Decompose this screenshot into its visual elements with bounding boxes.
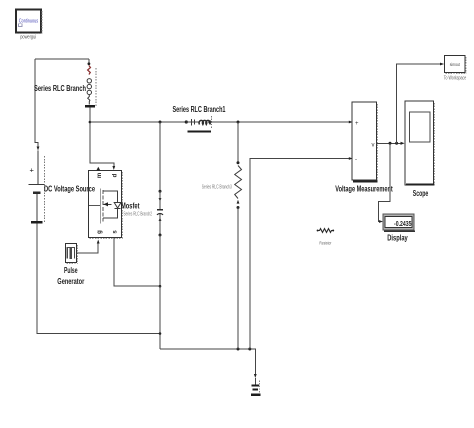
DC voltage source label [44, 184, 95, 193]
series RLC branch1 label [173, 105, 226, 114]
wire into Series RLC Branch top [88, 59, 91, 65]
powergui block [16, 10, 42, 34]
mosfet label [121, 201, 140, 210]
wire v-minus: corner to VM lower input [250, 157, 353, 349]
node resistor bottom junction [237, 348, 240, 351]
series RLC branch1 (horizontal) [185, 116, 212, 133]
wire resistor branch vertical top [237, 122, 239, 163]
DC voltage source [29, 151, 45, 224]
wire top-left horizontal [35, 58, 89, 60]
svg-text:m: m [97, 173, 103, 178]
node resistor branch tap [237, 121, 240, 124]
resistor R (series RLC branch3) [235, 161, 242, 209]
main top wire to Series RLC Branch1 [90, 121, 186, 123]
svg-text:Series RLC Branch1: Series RLC Branch1 [173, 105, 226, 114]
svg-text:Series RLC Branch3: Series RLC Branch3 [202, 184, 232, 190]
display block [383, 214, 415, 232]
node junction on main wire at left [89, 121, 92, 124]
wire VM output to scope [376, 142, 404, 145]
node s-junction [159, 285, 162, 288]
svg-text:Generator: Generator [57, 277, 84, 286]
to workspace label [444, 75, 467, 81]
svg-text:simout: simout [450, 62, 461, 67]
svg-text:powergui: powergui [20, 35, 36, 41]
scope label [413, 189, 429, 198]
svg-text:Resistor: Resistor [319, 240, 331, 245]
wire to display block [378, 143, 390, 223]
scope block [405, 101, 435, 185]
svg-text:-0.2435: -0.2435 [394, 219, 412, 228]
pulse generator [65, 244, 77, 264]
svg-text:Pulse: Pulse [64, 266, 78, 275]
wire capacitor bottom to s-node [159, 235, 161, 286]
svg-text:Voltage Measurement: Voltage Measurement [335, 185, 393, 194]
svg-text:To Workspace: To Workspace [444, 75, 467, 81]
wire mosfet source to node [114, 238, 160, 286]
wire bottom horizontal to ground corner [160, 349, 255, 374]
voltage measurement U2 block [352, 102, 377, 182]
wire main vertical down [159, 286, 161, 349]
wire from branch bottom to mosfet drain [90, 107, 115, 170]
wire to workspace block [397, 63, 445, 144]
svg-text:-: - [355, 157, 357, 163]
svg-text:+: + [30, 166, 35, 175]
svg-text:Scope: Scope [413, 189, 429, 198]
node capacitor branch tap [159, 121, 162, 124]
node vminus bottom junction [248, 348, 251, 351]
powergui label [20, 35, 36, 41]
node display tap [389, 142, 392, 145]
to workspace block (simout) [445, 55, 467, 73]
display label [387, 233, 408, 242]
svg-text:DC Voltage Source: DC Voltage Source [44, 184, 95, 193]
mosfet U1 block [88, 167, 122, 239]
wire resistor bottom vertical [237, 208, 239, 350]
main top wire to voltage measurement [210, 121, 353, 124]
node dc-junction [159, 332, 162, 335]
svg-text:v: v [372, 143, 375, 149]
resistor label [319, 240, 331, 245]
series RLC branch label [34, 84, 86, 93]
wire pulse generator to mosfet gate [77, 240, 100, 254]
wire DC source bottom to lower-left corner [37, 224, 160, 334]
svg-text:+: + [355, 121, 359, 127]
resistor (standalone) [317, 229, 335, 233]
series RLC branch2 label [124, 211, 153, 217]
svg-text:g: g [97, 230, 103, 234]
port m arrow [96, 167, 100, 171]
svg-text:d: d [112, 173, 118, 177]
svg-text:Series RLC Branch2: Series RLC Branch2 [124, 211, 153, 217]
node workspace tap [395, 142, 398, 145]
series RLC branch (vertical, top-left) [85, 66, 96, 108]
capacitor C (series RLC branch2) [157, 190, 163, 237]
ground G1 [251, 374, 261, 396]
wire capacitor branch vertical (top) [159, 122, 161, 191]
svg-text:Display: Display [387, 233, 408, 242]
series RLC branch3 label [202, 184, 232, 190]
svg-text:Mosfet: Mosfet [121, 201, 140, 210]
mosfet glyph [89, 204, 101, 206]
pulse generator label [57, 266, 84, 286]
wire left vertical from top loop [35, 59, 39, 151]
svg-text:Series RLC Branch: Series RLC Branch [34, 84, 86, 93]
voltage measurement label [335, 185, 393, 194]
